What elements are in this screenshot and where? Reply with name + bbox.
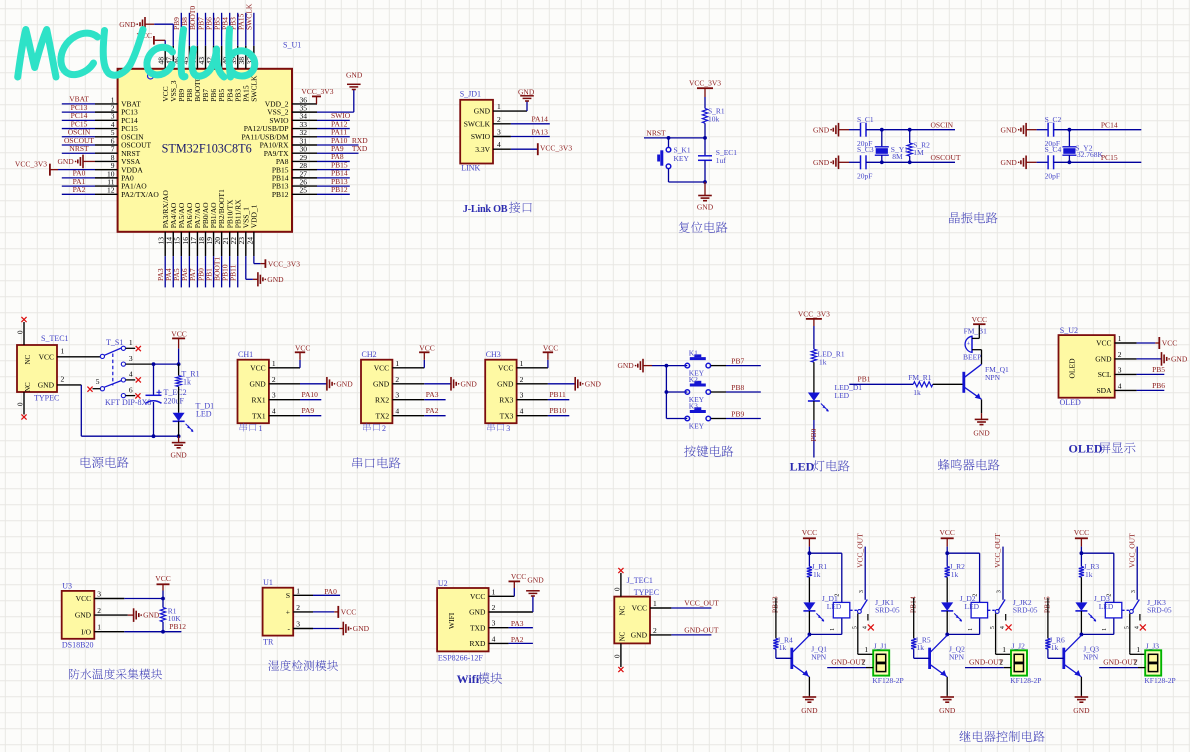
svg-text:5: 5: [96, 377, 100, 386]
svg-text:1M: 1M: [913, 148, 924, 157]
svg-text:1k: 1k: [951, 570, 959, 579]
svg-text:PB15: PB15: [1043, 596, 1052, 613]
svg-text:FM_B1: FM_B1: [964, 327, 988, 336]
svg-text:20pF: 20pF: [1045, 172, 1060, 181]
svg-text:VCC: VCC: [1096, 339, 1111, 348]
svg-text:VCC: VCC: [802, 528, 817, 537]
svg-text:4: 4: [497, 140, 501, 149]
svg-text:VCC: VCC: [498, 363, 513, 372]
svg-text:GND: GND: [1001, 158, 1018, 167]
svg-text:3: 3: [1118, 365, 1122, 374]
svg-text:PA14: PA14: [532, 115, 549, 124]
svg-text:2: 2: [272, 375, 276, 384]
svg-text:1k: 1k: [813, 570, 821, 579]
svg-text:VCC: VCC: [939, 528, 954, 537]
svg-text:J_J2: J_J2: [1012, 642, 1026, 651]
svg-text:24: 24: [245, 237, 254, 245]
svg-text:PB14: PB14: [909, 596, 918, 613]
svg-text:VCC_3V3: VCC_3V3: [268, 259, 300, 268]
svg-text:PC14: PC14: [1101, 121, 1118, 130]
svg-text:U2: U2: [438, 579, 448, 588]
svg-text:1: 1: [1118, 334, 1122, 343]
svg-text:GND: GND: [336, 379, 353, 388]
svg-text:6: 6: [129, 385, 133, 394]
svg-text:CH2: CH2: [362, 350, 377, 359]
svg-text:NPN: NPN: [949, 653, 965, 662]
svg-text:1: 1: [497, 102, 501, 111]
svg-text:GND: GND: [801, 706, 818, 715]
svg-text:RXD: RXD: [470, 639, 486, 648]
svg-text:S: S: [286, 591, 290, 600]
svg-text:1: 1: [259, 424, 263, 433]
svg-text:20pF: 20pF: [857, 172, 872, 181]
svg-text:TX3: TX3: [500, 411, 514, 420]
svg-text:GND: GND: [813, 158, 830, 167]
svg-text:S_JD1: S_JD1: [460, 90, 481, 99]
svg-text:PA0: PA0: [324, 587, 337, 596]
svg-text:1: 1: [97, 623, 101, 632]
svg-text:GND: GND: [1073, 706, 1090, 715]
svg-text:SRD-05: SRD-05: [1013, 605, 1038, 614]
svg-text:1k: 1k: [183, 378, 191, 387]
svg-text:LED: LED: [827, 602, 842, 611]
svg-text:CH3: CH3: [486, 350, 501, 359]
svg-text:GND: GND: [38, 381, 55, 390]
svg-text:KFT DIP-8X8: KFT DIP-8X8: [105, 398, 151, 407]
svg-text:NRST: NRST: [69, 144, 89, 153]
svg-text:3: 3: [1131, 590, 1137, 593]
svg-text:S_C2: S_C2: [1045, 115, 1062, 124]
svg-text:NRST: NRST: [646, 128, 666, 137]
svg-text:GND: GND: [497, 379, 514, 388]
svg-text:3: 3: [272, 391, 276, 400]
svg-text:LINK: LINK: [461, 164, 480, 173]
svg-text:PB9: PB9: [731, 409, 744, 418]
svg-text:GND: GND: [119, 20, 136, 29]
svg-text:S_C3: S_C3: [857, 145, 874, 154]
svg-text:GND: GND: [631, 631, 648, 640]
svg-text:PA13: PA13: [532, 127, 549, 136]
svg-text:4: 4: [129, 370, 133, 379]
svg-text:GND: GND: [143, 611, 160, 620]
svg-text:5: 5: [990, 626, 996, 629]
svg-text:PA2: PA2: [426, 406, 439, 415]
svg-text:DS18B20: DS18B20: [62, 641, 94, 650]
svg-text:GND: GND: [617, 361, 634, 370]
svg-text:GND: GND: [697, 203, 714, 212]
svg-text:Wifi: Wifi: [457, 672, 480, 686]
svg-text:2: 2: [1134, 658, 1138, 667]
svg-text:5: 5: [852, 626, 858, 629]
svg-text:1k: 1k: [819, 358, 827, 367]
svg-text:4: 4: [862, 626, 868, 629]
svg-text:2: 2: [382, 424, 386, 433]
svg-text:NC: NC: [24, 354, 32, 364]
svg-text:OLED: OLED: [1069, 442, 1103, 456]
svg-text:TR: TR: [263, 637, 274, 646]
svg-text:GND: GND: [461, 379, 478, 388]
svg-text:VCC: VCC: [470, 592, 485, 601]
svg-text:GND: GND: [474, 107, 491, 116]
svg-text:1uf: 1uf: [716, 156, 727, 165]
svg-text:CH1: CH1: [238, 350, 253, 359]
svg-text:4: 4: [395, 407, 399, 416]
svg-text:GND: GND: [813, 125, 830, 134]
svg-text:1: 1: [1136, 645, 1140, 654]
svg-text:PB7: PB7: [731, 357, 744, 366]
svg-text:GND: GND: [346, 71, 363, 80]
svg-text:U3: U3: [62, 581, 72, 590]
svg-text:3: 3: [296, 620, 300, 629]
svg-text:1: 1: [492, 587, 496, 596]
svg-text:220uF: 220uF: [164, 397, 185, 406]
svg-text:S_C4: S_C4: [1045, 145, 1062, 154]
svg-text:PB13: PB13: [771, 596, 780, 613]
svg-text:VCC: VCC: [155, 574, 170, 583]
svg-text:GND: GND: [1171, 355, 1188, 364]
svg-text:1k: 1k: [1051, 643, 1059, 652]
svg-text:S_U2: S_U2: [1060, 326, 1078, 335]
svg-text:32.768K: 32.768K: [1077, 150, 1104, 159]
svg-text:2: 2: [395, 375, 399, 384]
svg-text:K3: K3: [689, 402, 698, 411]
svg-text:PB12: PB12: [331, 185, 348, 194]
svg-text:2: 2: [520, 375, 524, 384]
svg-text:TX1: TX1: [252, 411, 266, 420]
svg-text:NC: NC: [618, 605, 626, 615]
svg-text:10k: 10k: [708, 115, 720, 124]
svg-text:VCC: VCC: [543, 344, 558, 353]
svg-text:VCC: VCC: [341, 608, 356, 617]
svg-text:12: 12: [107, 186, 115, 195]
svg-text:LED: LED: [196, 409, 212, 418]
svg-text:3: 3: [997, 590, 1003, 593]
svg-text:KF128-2P: KF128-2P: [1010, 676, 1041, 685]
svg-text:S_U1: S_U1: [283, 41, 301, 50]
svg-text:2: 2: [653, 626, 657, 635]
svg-text:2: 2: [1118, 350, 1122, 359]
svg-text:RX3: RX3: [499, 395, 513, 404]
svg-text:SWCLK: SWCLK: [245, 3, 254, 30]
svg-text:PB10: PB10: [549, 406, 566, 415]
svg-text:GND: GND: [170, 451, 187, 460]
svg-text:SCL: SCL: [1098, 370, 1112, 379]
svg-text:1: 1: [61, 346, 65, 355]
svg-text:LED: LED: [790, 460, 815, 474]
svg-text:K1: K1: [689, 349, 698, 358]
svg-text:TXD: TXD: [352, 144, 368, 153]
svg-text:TYPEC: TYPEC: [634, 588, 659, 597]
svg-text:GND: GND: [527, 575, 544, 584]
svg-text:S_C1: S_C1: [857, 115, 874, 124]
svg-text:PA9: PA9: [302, 406, 315, 415]
svg-text:SWCLK: SWCLK: [249, 75, 258, 102]
svg-text:GND-OUT: GND-OUT: [684, 626, 719, 635]
svg-text:VCC_OUT: VCC_OUT: [855, 533, 864, 568]
svg-text:RX1: RX1: [252, 395, 266, 404]
svg-text:PA2/TX/AO: PA2/TX/AO: [121, 190, 159, 199]
svg-text:NC: NC: [618, 631, 626, 641]
svg-text:PA3: PA3: [511, 619, 524, 628]
svg-text:3: 3: [859, 590, 865, 593]
svg-text:I/O: I/O: [81, 627, 92, 636]
svg-text:KF128-2P: KF128-2P: [872, 676, 903, 685]
svg-text:STM32F103C8T6: STM32F103C8T6: [162, 142, 252, 156]
svg-text:NPN: NPN: [985, 373, 1001, 382]
svg-text:3.3V: 3.3V: [475, 145, 490, 154]
svg-text:VCC: VCC: [39, 352, 54, 361]
svg-text:VDD_1: VDD_1: [249, 204, 258, 228]
svg-text:4: 4: [492, 634, 496, 643]
svg-text:2: 2: [492, 603, 496, 612]
svg-text:RX2: RX2: [375, 395, 389, 404]
svg-text:1: 1: [129, 338, 133, 347]
svg-text:+: +: [286, 608, 290, 617]
svg-text:1k: 1k: [1085, 570, 1093, 579]
svg-text:LED: LED: [965, 602, 980, 611]
svg-text:4: 4: [520, 407, 524, 416]
svg-text:3: 3: [97, 590, 101, 599]
svg-text:VCC: VCC: [171, 330, 186, 339]
svg-text:U1: U1: [263, 578, 273, 587]
svg-text:VCC_3V3: VCC_3V3: [798, 309, 830, 318]
svg-text:1: 1: [395, 359, 399, 368]
svg-text:3: 3: [520, 391, 524, 400]
svg-text:GND: GND: [373, 379, 390, 388]
svg-text:OSCIN: OSCIN: [931, 121, 954, 130]
svg-text:VCC_OUT: VCC_OUT: [1127, 533, 1136, 568]
svg-text:2: 2: [862, 658, 866, 667]
svg-text:2: 2: [497, 115, 501, 124]
svg-text:PB12: PB12: [272, 190, 289, 199]
svg-text:ESP8266-12F: ESP8266-12F: [438, 653, 483, 662]
svg-text:VCC_OUT: VCC_OUT: [993, 533, 1002, 568]
svg-text:GND: GND: [267, 275, 284, 284]
svg-text:VCC: VCC: [419, 344, 434, 353]
svg-text:WIFI: WIFI: [447, 612, 456, 629]
svg-text:1: 1: [1002, 645, 1006, 654]
svg-text:3: 3: [395, 391, 399, 400]
svg-text:2: 2: [999, 658, 1003, 667]
svg-text:1: 1: [520, 359, 524, 368]
svg-text:VCC_3V3: VCC_3V3: [301, 87, 333, 96]
svg-text:SWCLK: SWCLK: [464, 119, 491, 128]
svg-text:GND: GND: [1001, 125, 1018, 134]
svg-text:1k: 1k: [917, 643, 925, 652]
svg-text:VCC: VCC: [511, 572, 526, 581]
svg-text:VCC: VCC: [1074, 528, 1089, 537]
svg-text:PB6: PB6: [1152, 381, 1165, 390]
svg-text:J_J1: J_J1: [874, 642, 888, 651]
svg-text:GND: GND: [57, 157, 74, 166]
svg-text:S_TEC1: S_TEC1: [41, 334, 69, 343]
svg-text:3: 3: [506, 424, 510, 433]
svg-text:PB11: PB11: [229, 264, 238, 281]
svg-text:LED: LED: [1099, 602, 1114, 611]
svg-text:PB11: PB11: [549, 390, 566, 399]
svg-text:4: 4: [1134, 626, 1140, 629]
svg-text:OSCOUT: OSCOUT: [931, 153, 961, 162]
svg-text:1: 1: [272, 359, 276, 368]
svg-text:GND: GND: [973, 429, 990, 438]
svg-text:VCC: VCC: [295, 344, 310, 353]
svg-text:4: 4: [272, 407, 276, 416]
svg-text:KF128-2P: KF128-2P: [1144, 676, 1175, 685]
svg-text:1k: 1k: [913, 388, 921, 397]
svg-text:VCC_3V3: VCC_3V3: [15, 159, 47, 168]
svg-text:J_J3: J_J3: [1146, 642, 1160, 651]
svg-text:TX2: TX2: [375, 411, 389, 420]
svg-text:NPN: NPN: [811, 653, 827, 662]
svg-text:GND: GND: [469, 608, 486, 617]
svg-text:0: 0: [17, 330, 25, 334]
svg-text:SRD-05: SRD-05: [875, 605, 900, 614]
svg-text:0: 0: [613, 587, 621, 591]
svg-text:BEEP: BEEP: [963, 353, 981, 362]
svg-text:2: 2: [61, 374, 65, 383]
svg-text:NPN: NPN: [1083, 653, 1099, 662]
svg-text:VCC_3V3: VCC_3V3: [689, 79, 721, 88]
svg-text:KEY: KEY: [689, 421, 705, 430]
svg-text:PA10: PA10: [302, 390, 319, 399]
svg-text:SDA: SDA: [1096, 386, 1112, 395]
svg-text:PB8: PB8: [731, 383, 744, 392]
svg-text:VCC_3V3: VCC_3V3: [540, 144, 572, 153]
svg-text:GND: GND: [75, 611, 92, 620]
svg-text:VCC: VCC: [972, 315, 987, 324]
svg-text:PA3: PA3: [426, 390, 439, 399]
svg-text:PB5: PB5: [1152, 365, 1165, 374]
svg-text:+: +: [967, 341, 971, 348]
svg-text:VCC_OUT: VCC_OUT: [684, 599, 719, 608]
svg-text:1: 1: [864, 645, 868, 654]
svg-text:VCC: VCC: [76, 594, 91, 603]
svg-text:K2: K2: [689, 375, 698, 384]
svg-text:8M: 8M: [892, 152, 903, 161]
svg-text:TYPEC: TYPEC: [34, 394, 59, 403]
svg-text:0: 0: [17, 402, 25, 406]
svg-text:0: 0: [613, 654, 621, 658]
svg-text:VCC: VCC: [632, 604, 647, 613]
svg-text:PA2: PA2: [511, 635, 524, 644]
svg-text:PC15: PC15: [1101, 153, 1118, 162]
svg-text:GND: GND: [585, 379, 602, 388]
svg-text:VCC: VCC: [374, 363, 389, 372]
svg-text:GND: GND: [1095, 355, 1112, 364]
svg-text:3: 3: [492, 619, 496, 628]
svg-text:PB12: PB12: [169, 622, 186, 631]
svg-text:3: 3: [129, 354, 133, 363]
svg-text:KEY: KEY: [674, 154, 690, 163]
svg-text:T_S1: T_S1: [106, 338, 123, 347]
svg-text:1: 1: [296, 586, 300, 595]
svg-text:PB1: PB1: [858, 374, 871, 383]
svg-text:GND: GND: [518, 88, 535, 97]
svg-text:1: 1: [968, 628, 974, 631]
svg-text:J-Link OB: J-Link OB: [463, 204, 508, 215]
svg-text:SWIO: SWIO: [471, 132, 491, 141]
svg-text:NC: NC: [24, 382, 32, 392]
svg-text:OLED: OLED: [1060, 398, 1082, 407]
svg-text:VCC: VCC: [250, 363, 265, 372]
svg-text:OLED: OLED: [1068, 358, 1077, 379]
svg-text:3: 3: [497, 128, 501, 137]
svg-text:GND: GND: [939, 706, 956, 715]
svg-text:TXD: TXD: [470, 623, 486, 632]
svg-text:VCC: VCC: [1162, 339, 1177, 348]
svg-text:J_TEC1: J_TEC1: [627, 576, 653, 585]
svg-text:FM_R1: FM_R1: [908, 373, 932, 382]
svg-text:4: 4: [1000, 626, 1006, 629]
svg-text:25: 25: [300, 186, 308, 195]
svg-text:PB0: PB0: [809, 428, 818, 441]
svg-text:1: 1: [1102, 628, 1108, 631]
svg-text:5: 5: [1124, 626, 1130, 629]
svg-text:1: 1: [830, 628, 836, 631]
svg-text:GND: GND: [353, 624, 370, 633]
svg-text:1: 1: [653, 599, 657, 608]
svg-text:2: 2: [296, 603, 300, 612]
svg-text:SRD-05: SRD-05: [1147, 605, 1172, 614]
svg-text:2: 2: [97, 606, 101, 615]
svg-text:PA2: PA2: [73, 185, 86, 194]
svg-text:4: 4: [1118, 381, 1122, 390]
svg-text:GND: GND: [249, 379, 266, 388]
svg-text:1k: 1k: [779, 643, 787, 652]
svg-text:LED: LED: [835, 391, 850, 400]
